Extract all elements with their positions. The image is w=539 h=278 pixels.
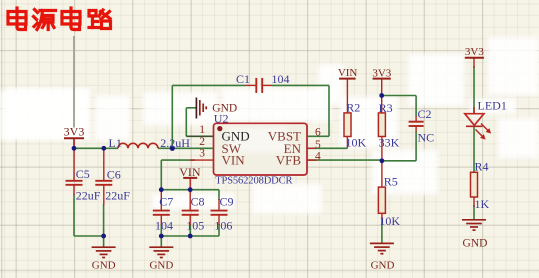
svg-text:33K: 33K — [379, 136, 400, 150]
svg-text:R5: R5 — [384, 175, 398, 189]
svg-text:VIN: VIN — [179, 165, 201, 179]
svg-text:104: 104 — [155, 218, 173, 232]
svg-text:106: 106 — [214, 218, 232, 232]
svg-text:4: 4 — [315, 151, 321, 163]
svg-text:VIN: VIN — [222, 153, 246, 168]
svg-text:5: 5 — [315, 139, 321, 151]
svg-text:NC: NC — [418, 131, 435, 145]
svg-text:GND: GND — [463, 238, 488, 250]
svg-text:1K: 1K — [475, 197, 490, 211]
svg-text:TPS562208DDCR: TPS562208DDCR — [215, 176, 292, 187]
svg-text:3: 3 — [199, 148, 205, 160]
svg-text:R4: R4 — [475, 160, 489, 174]
svg-text:C7: C7 — [159, 194, 173, 208]
svg-text:2: 2 — [199, 136, 205, 148]
svg-text:22uF: 22uF — [76, 188, 101, 202]
svg-text:104: 104 — [272, 72, 290, 86]
svg-text:C2: C2 — [418, 107, 432, 121]
svg-text:2.2uH: 2.2uH — [160, 136, 190, 150]
svg-text:LED1: LED1 — [478, 98, 507, 112]
svg-text:C5: C5 — [76, 167, 90, 181]
svg-text:VFB: VFB — [276, 153, 302, 168]
svg-text:10K: 10K — [379, 214, 400, 228]
svg-text:GND: GND — [92, 260, 116, 272]
svg-text:GND: GND — [371, 260, 395, 272]
svg-text:U2: U2 — [214, 111, 229, 125]
svg-text:3V3: 3V3 — [372, 67, 391, 79]
svg-text:C9: C9 — [220, 194, 234, 208]
svg-text:GND: GND — [149, 260, 173, 272]
svg-text:105: 105 — [186, 218, 204, 232]
svg-text:1: 1 — [199, 124, 205, 136]
svg-text:L1: L1 — [109, 136, 122, 150]
svg-text:R2: R2 — [346, 100, 360, 114]
svg-text:6: 6 — [315, 127, 321, 139]
svg-text:3V3: 3V3 — [465, 46, 484, 58]
svg-text:C6: C6 — [107, 168, 121, 182]
svg-text:22uF: 22uF — [105, 188, 130, 202]
svg-text:C1: C1 — [236, 72, 250, 86]
svg-text:3V3: 3V3 — [64, 125, 85, 139]
svg-text:VIN: VIN — [338, 67, 358, 79]
svg-text:10K: 10K — [346, 136, 367, 150]
svg-text:R3: R3 — [379, 101, 393, 115]
svg-text:C8: C8 — [191, 194, 205, 208]
